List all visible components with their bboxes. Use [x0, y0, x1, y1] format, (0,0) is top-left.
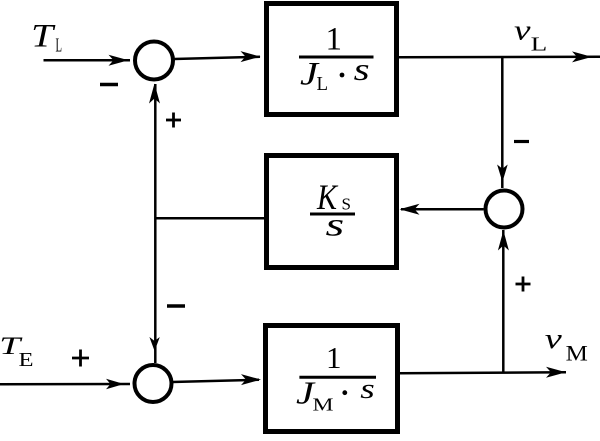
wire S3 to block B2: [400, 204, 484, 215]
wire B3 to vM output: [400, 367, 567, 378]
block B2 Ks/s: [267, 156, 397, 268]
wire junction vL down to S3: [497, 57, 508, 188]
svg-text:E: E: [19, 349, 34, 371]
block B3 1/(JM·s): [266, 326, 398, 432]
svg-text:1: 1: [326, 22, 343, 58]
svg-text:s: s: [360, 373, 375, 405]
wire feedback vertical: [154, 84, 157, 363]
summing junction S1: [135, 42, 173, 80]
value JM·s denominator B3: [296, 373, 375, 415]
fraction bar B2: [310, 213, 355, 216]
label vM: [545, 323, 588, 366]
arrowhead into S1 bottom: [149, 84, 160, 104]
fraction bar B3: [299, 376, 376, 379]
value JL·s denominator B1: [300, 51, 370, 95]
wire B1 to vL output: [399, 51, 600, 62]
sign plus below S1: [166, 113, 181, 128]
fraction bar B1: [299, 56, 374, 59]
summing junction S2: [135, 365, 172, 402]
label vL: [514, 16, 547, 56]
wire junction vM up to S3: [498, 230, 509, 373]
sign minus above S2: [167, 304, 185, 307]
sign minus at S1 input: [100, 83, 118, 86]
svg-text:T: T: [31, 19, 56, 55]
wire TL input: [44, 55, 131, 66]
sign minus above S3: [514, 140, 529, 143]
wire S2 to block B3: [172, 374, 261, 385]
svg-text:1: 1: [326, 340, 342, 375]
svg-text:L: L: [531, 34, 548, 56]
svg-text:M: M: [566, 341, 588, 366]
arrowhead into S2 top: [149, 337, 159, 351]
svg-text:s: s: [354, 51, 370, 87]
svg-text:M: M: [313, 395, 334, 415]
wire B2 output to feedback line: [155, 217, 264, 220]
block B1 1/(JL·s): [267, 4, 397, 115]
svg-text:v: v: [514, 16, 531, 47]
svg-text:v: v: [545, 323, 562, 355]
wire S1 to block B1: [174, 51, 261, 62]
svg-text:L: L: [317, 73, 329, 95]
svg-text:L: L: [56, 35, 63, 57]
label TL: [31, 19, 62, 57]
sign plus below S3: [516, 277, 531, 292]
sign plus at TE input: [72, 350, 89, 367]
wire TE input: [0, 379, 130, 389]
svg-text:s: s: [326, 208, 345, 244]
label TE: [0, 333, 33, 371]
value Ks numerator B2: [316, 177, 351, 217]
summing junction S3: [486, 191, 523, 228]
